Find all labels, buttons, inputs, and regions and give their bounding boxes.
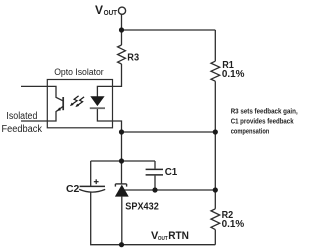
svg-text:C1 provides feedback: C1 provides feedback bbox=[231, 119, 294, 126]
svg-text:RTN: RTN bbox=[168, 230, 189, 242]
svg-text:OUT: OUT bbox=[104, 10, 118, 17]
svg-text:SPX432: SPX432 bbox=[125, 201, 159, 212]
svg-text:R3 sets feedback gain,: R3 sets feedback gain, bbox=[231, 109, 298, 116]
svg-text:compensation: compensation bbox=[231, 129, 270, 136]
svg-text:Feedback: Feedback bbox=[2, 124, 43, 135]
svg-text:C1: C1 bbox=[165, 167, 178, 178]
svg-text:C2: C2 bbox=[66, 184, 80, 195]
svg-text:V: V bbox=[95, 3, 103, 17]
svg-text:0.1%: 0.1% bbox=[222, 219, 245, 230]
svg-text:R3: R3 bbox=[127, 53, 139, 64]
svg-text:Isolated: Isolated bbox=[6, 111, 37, 122]
svg-text:0.1%: 0.1% bbox=[222, 69, 245, 80]
svg-text:Opto Isolator: Opto Isolator bbox=[54, 67, 103, 77]
svg-text:OUT: OUT bbox=[158, 236, 169, 242]
